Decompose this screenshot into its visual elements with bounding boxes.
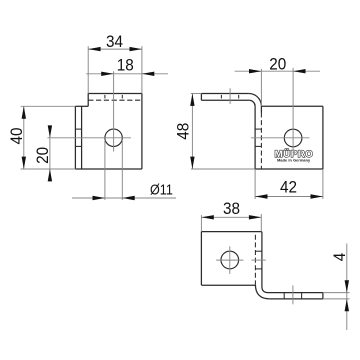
side view back face solid stub — [260, 106, 262, 112]
svg-text:Made in Germany: Made in Germany — [277, 159, 311, 163]
front view hidden hole edges in flange band — [104, 95, 106, 99]
side view flange hole center line — [229, 88, 231, 104]
dim 38 arrow right — [249, 215, 261, 219]
dim 34 arrow right — [130, 47, 142, 51]
side view plate top edge — [261, 105, 323, 107]
side view hidden flange hole edges (dashed) — [220, 95, 222, 99]
dim 48 arrow bottom — [190, 157, 194, 169]
dim 34 dimension line — [88, 48, 142, 50]
dia11 extension line left — [104, 140, 106, 200]
svg-text:48: 48 — [174, 123, 193, 140]
dia11 arrow right (outside, points left) — [122, 196, 134, 200]
side view plate right edge — [322, 106, 324, 169]
top view plate right edge — [261, 232, 263, 287]
dim 42 arrow right — [311, 194, 323, 198]
dim 34 extension line left — [87, 46, 89, 93]
dim 34/18 extension line right — [141, 46, 143, 93]
dim 48 top extension line — [191, 93, 202, 95]
svg-text:40: 40 — [7, 127, 26, 144]
side view hole vertical center line — [292, 68, 294, 152]
dim 34 arrow left — [88, 47, 100, 51]
svg-text:20: 20 — [269, 55, 286, 74]
svg-text:20: 20 — [33, 147, 52, 164]
side view flange top edge — [201, 93, 248, 95]
front view plate inner vertical line — [81, 106, 83, 169]
dim 40 top extension line — [21, 105, 76, 107]
front view bottom edge — [75, 168, 141, 170]
top view center line across bend strip — [252, 259, 266, 261]
dia11 extension line right — [121, 140, 123, 200]
top view plate bottom edge — [201, 284, 255, 286]
front view hole circle — [105, 129, 122, 146]
dim 20 dimension line — [49, 125, 51, 181]
side view plate bottom edge — [255, 168, 323, 170]
side view back face hidden line (dashed) — [260, 113, 262, 169]
dim 38 extension line right — [260, 214, 262, 232]
side view flange outer bend arc — [249, 94, 262, 107]
dim 40/20 bottom extension line — [21, 168, 76, 170]
svg-text:38: 38 — [223, 199, 240, 218]
front view plate left edge — [74, 106, 76, 169]
dim 18 dimension line — [86, 73, 168, 75]
front view plate top step edge — [75, 105, 88, 107]
dim 18 arrow right (outside, points left) — [142, 72, 154, 76]
top view hidden bend line (dashed) — [254, 235, 256, 285]
side view flange bottom edge — [201, 99, 249, 101]
top view hole horizontal center line — [216, 259, 243, 261]
dim 42 extension line left — [254, 169, 256, 199]
dim 48/42 bottom extension line — [191, 168, 255, 170]
front view right edge — [141, 94, 143, 170]
front view flange left edge — [87, 94, 89, 107]
dim 4 arrow top (outside, points down) — [345, 280, 349, 292]
top view inner bend curve — [262, 287, 268, 293]
dim 40 dimension line — [23, 106, 25, 169]
dim 42 dimension line — [255, 196, 323, 198]
top view leg end edge — [322, 293, 324, 299]
front view hole horizontal center line — [47, 137, 131, 139]
top view hole circle — [221, 251, 239, 269]
svg-text:4: 4 — [330, 253, 349, 262]
top view leg bottom face — [270, 298, 323, 300]
top view hidden hole edge ticks on bend strip — [255, 250, 262, 252]
dim 40 arrow top — [22, 106, 26, 118]
side view flange left end cap — [200, 94, 202, 101]
side view plate front face — [254, 106, 256, 169]
dim 42 extension line right — [322, 169, 324, 199]
dia11 arrow left (outside, points right) — [93, 196, 105, 200]
dim 4 extension line bottom — [323, 298, 350, 300]
top view hole vertical center line — [229, 246, 231, 274]
dim 20 arrow bottom (outside, points up) — [48, 169, 52, 181]
dim 38 dimension line — [201, 216, 261, 218]
top view leg top face — [268, 292, 323, 294]
top view plate top edge — [201, 231, 262, 233]
side view flange inner bend arc — [249, 100, 255, 106]
dim 48 arrow top — [190, 94, 194, 106]
dim 38 extension line left — [200, 215, 202, 232]
dim 4 dimension line — [346, 244, 348, 331]
dim 20 top dimension line — [235, 70, 320, 72]
dim 42 arrow left — [255, 194, 267, 198]
dim 40 arrow bottom — [22, 157, 26, 169]
svg-text:34: 34 — [106, 32, 123, 51]
side view hole circle — [284, 129, 302, 147]
dim 18 arrow left (outside, points right) — [101, 72, 113, 76]
side view hole horizontal center line — [251, 137, 310, 139]
side view hidden hole edge ticks on bend strip — [255, 128, 261, 130]
dim 20 top arrow right (outside, points left) — [293, 69, 305, 73]
top view outer bend curve — [255, 284, 270, 299]
svg-text:42: 42 — [280, 178, 297, 197]
dim 4 extension line top — [323, 292, 350, 294]
svg-text:Ø11: Ø11 — [150, 181, 173, 198]
front view hidden flange bottom line (dashed) — [88, 99, 142, 101]
dia11 dimension line — [72, 197, 176, 199]
dim 48 dimension line — [191, 94, 193, 170]
dim 4 arrow bottom (outside, points up) — [345, 299, 349, 311]
front view hole vertical center line — [113, 71, 115, 151]
front view hidden hole edge ticks on left strip — [75, 128, 81, 130]
top view hidden hole edges in leg (dashed) — [283, 293, 285, 299]
front view flange top edge — [88, 93, 142, 95]
dim 20 top arrow left (outside, points right) — [249, 69, 261, 73]
svg-text:18: 18 — [117, 56, 134, 75]
top view leg hole center line — [292, 285, 294, 304]
dim 20 arrow top (outside, points down) — [48, 125, 52, 137]
dim 38 arrow left — [201, 215, 213, 219]
top view plate left edge — [200, 232, 202, 286]
dim 20 top: extension line at back face — [260, 69, 262, 106]
